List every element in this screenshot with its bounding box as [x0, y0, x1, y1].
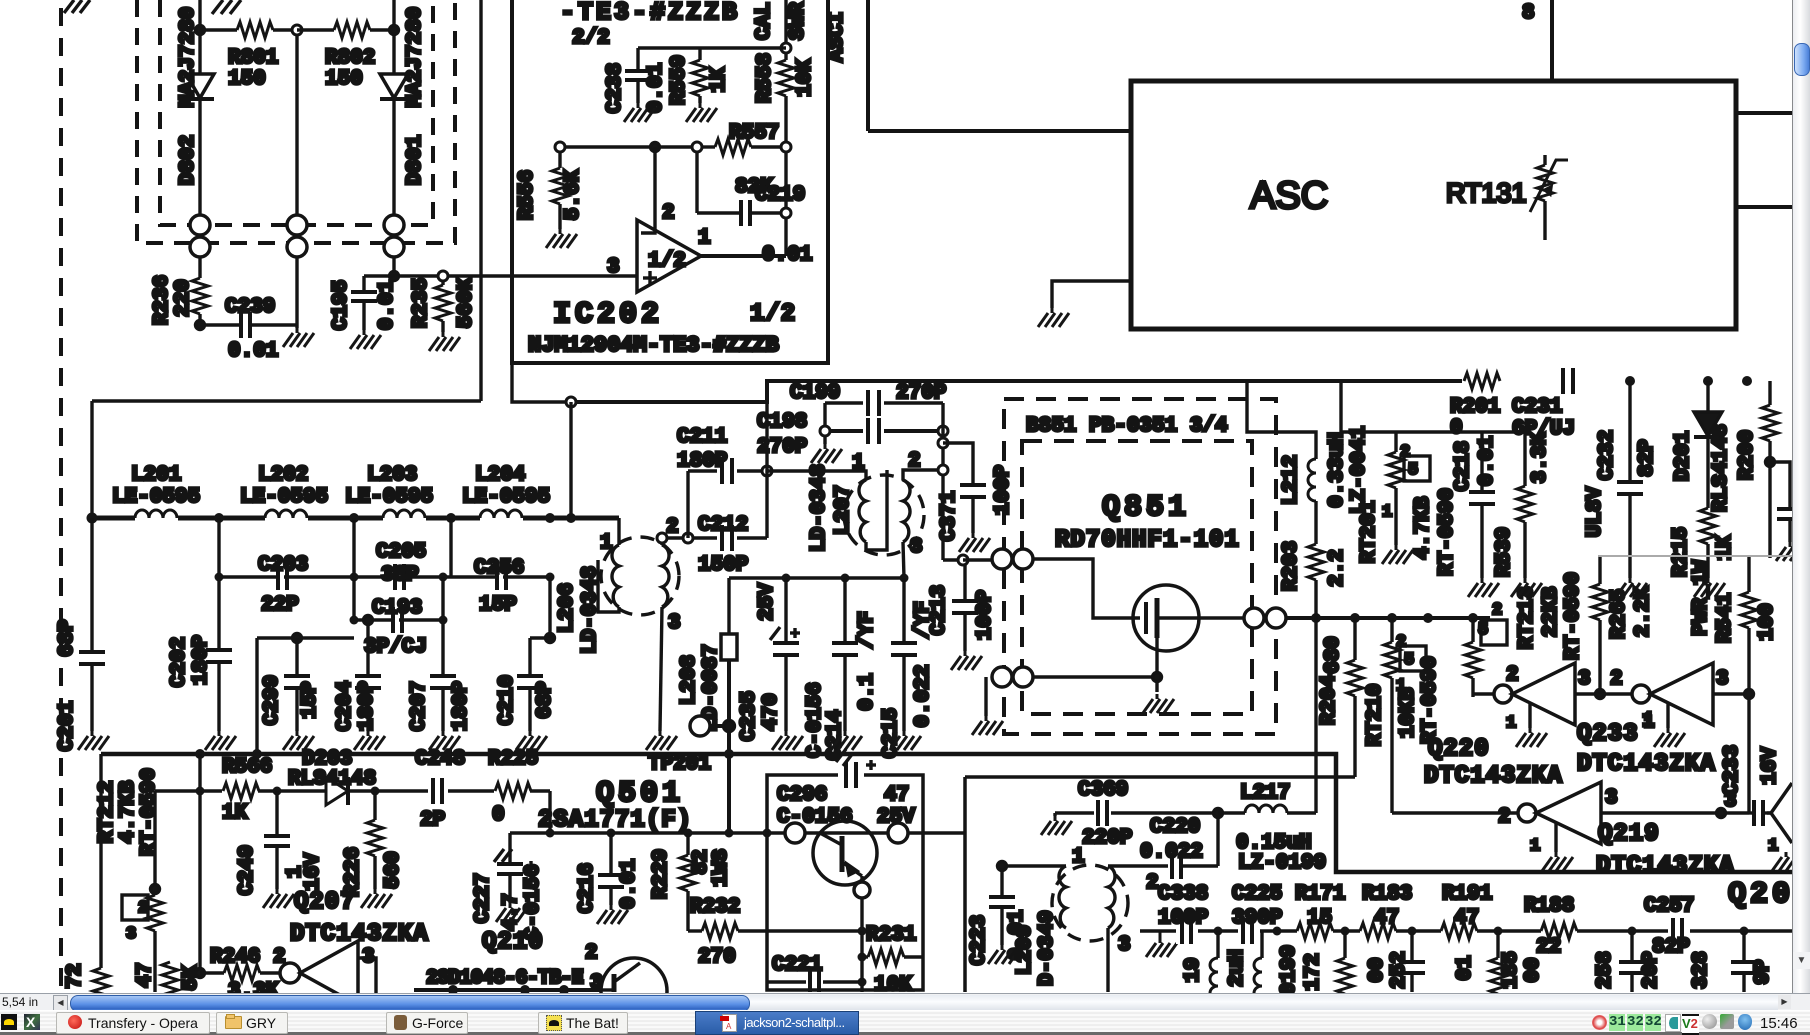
- wire x354 down: [352, 518, 355, 620]
- connector circles Q851 output: [1244, 608, 1264, 628]
- resistor RT212: [147, 791, 163, 992]
- L206 pin3 wire: [660, 607, 662, 731]
- svg-text:LD-0348: LD-0348: [579, 566, 602, 654]
- L209 left winding: [1059, 866, 1066, 928]
- ground under C207: [429, 731, 460, 750]
- inverter Q207: [280, 941, 358, 1005]
- capacitor C205: [393, 564, 404, 590]
- connector circles D802: [190, 215, 210, 235]
- tray icon V2: [1682, 1014, 1699, 1035]
- resistor R246: [200, 965, 281, 981]
- svg-text:LD-0348: LD-0348: [808, 464, 831, 552]
- wire C371 feed: [943, 443, 973, 485]
- resistor R566: [222, 782, 259, 800]
- opamp minus sign: [643, 232, 655, 235]
- svg-text:1: 1: [1382, 503, 1392, 522]
- svg-text:C193: C193: [372, 597, 422, 620]
- ground under R226: [361, 889, 392, 908]
- svg-text:2: 2: [1396, 633, 1406, 652]
- svg-text:2.2K: 2.2K: [1632, 586, 1655, 637]
- svg-text:C195: C195: [330, 280, 353, 330]
- Q501 bus y833: [510, 831, 965, 835]
- capacitor C195: [351, 276, 377, 330]
- resistor R185: [1490, 931, 1506, 994]
- svg-text:560: 560: [382, 851, 405, 889]
- svg-text:NJM12904M-TE3-#ZZZB: NJM12904M-TE3-#ZZZB: [528, 333, 779, 358]
- ground under C213: [951, 651, 982, 670]
- resistor R231: [862, 949, 923, 965]
- node dot R246: [196, 969, 205, 978]
- svg-text:CAL: CAL: [753, 2, 776, 40]
- L207 left winding bottom stub: [866, 470, 887, 550]
- inductor L-sub: [1210, 931, 1218, 1000]
- resistor R201 on bus: [1462, 372, 1502, 390]
- capacitor C220: [1172, 853, 1218, 879]
- svg-text:3: 3: [1724, 790, 1737, 813]
- wire R203 to drain line: [1314, 580, 1317, 618]
- wire L217 riser to drain line: [1314, 618, 1317, 813]
- resistor RT210: [1384, 618, 1400, 813]
- svg-text:3.3K: 3.3K: [1529, 432, 1552, 483]
- transistor Q210: [601, 958, 667, 1024]
- opera icon: [68, 1015, 82, 1029]
- taskbar: [0, 1010, 1810, 1035]
- svg-text:D201: D201: [1672, 431, 1695, 481]
- row C193: [354, 618, 443, 621]
- resistor RT201: [1388, 432, 1404, 545]
- svg-text:Q233: Q233: [1577, 721, 1639, 748]
- RT201 pin box: [1404, 456, 1430, 481]
- capacitor C219: [697, 152, 791, 226]
- task button G-Force: [386, 1012, 468, 1034]
- node dots on L-chain: [87, 513, 577, 524]
- svg-text:10K: 10K: [874, 974, 912, 993]
- wire D801 to C195/R235: [392, 257, 395, 276]
- Q233 pin1 stub + ground: [1666, 704, 1669, 728]
- L209 pin2 wire: [1108, 864, 1168, 867]
- status text 5,54 in: [2, 995, 52, 1009]
- main bus y754: [101, 754, 1792, 872]
- svg-text:C219: C219: [755, 184, 805, 207]
- ground under C215: [890, 731, 921, 750]
- svg-text:47: 47: [1454, 907, 1479, 930]
- svg-text:72: 72: [64, 963, 87, 988]
- svg-text:2: 2: [1146, 872, 1159, 895]
- svg-text:0: 0: [1450, 417, 1463, 440]
- svg-text:3: 3: [1605, 787, 1618, 810]
- svg-text:C210: C210: [496, 675, 519, 725]
- capacitor C203: [276, 564, 287, 590]
- node dots row791: [196, 787, 380, 796]
- Q220 output wire: [1575, 692, 1632, 695]
- svg-text:68P: 68P: [56, 619, 79, 657]
- L209 right winding: [1108, 866, 1115, 928]
- tray clock: [1760, 1015, 1798, 1032]
- wire CAL column: [784, 0, 787, 60]
- folder icon: [225, 1016, 242, 1029]
- svg-text:22KB: 22KB: [1540, 586, 1563, 637]
- wire L-chain to L206 pin1: [617, 518, 620, 545]
- status / horizontal scrollbar strip: [0, 993, 1810, 1011]
- L209 pin3 wire: [1106, 928, 1109, 992]
- svg-text:RT212: RT212: [96, 780, 119, 843]
- svg-text:1K: 1K: [222, 802, 248, 825]
- resistor R226: [367, 791, 383, 889]
- L207 left winding: [859, 480, 866, 542]
- node dots bus990: [448, 985, 569, 995]
- inner dashed box (D801/D802 section): [160, 0, 433, 225]
- capacitor C211: [688, 458, 762, 484]
- inverter Q219: [1518, 782, 1601, 844]
- wire ASC top pin: [1550, 0, 1554, 81]
- junction circle at 786,48: [781, 43, 791, 53]
- ground under C195: [350, 330, 381, 349]
- svg-text:C371: C371: [938, 491, 961, 541]
- svg-text:ASCI: ASCI: [826, 12, 849, 62]
- svg-text:R246 2: R246 2: [210, 946, 286, 969]
- resistor R232: [688, 923, 862, 939]
- svg-text:TP201: TP201: [648, 753, 711, 776]
- connector circle Q501 right: [888, 823, 908, 843]
- resistor R539: [1517, 432, 1533, 578]
- svg-text:DTC143ZKA: DTC143ZKA: [1577, 751, 1716, 778]
- wire TP201 riser to Q501 bus: [727, 754, 731, 833]
- svg-text:1: 1: [1768, 837, 1778, 856]
- svg-text:10KB: 10KB: [1397, 687, 1420, 738]
- ground under R539: [1511, 578, 1542, 597]
- svg-text:Q851: Q851: [1102, 491, 1190, 525]
- svg-text:19: 19: [1182, 957, 1205, 982]
- resistor R191: [1441, 922, 1477, 940]
- svg-text:RLS4148: RLS4148: [1710, 424, 1733, 512]
- pdf icon: [722, 1014, 737, 1032]
- inductor L204: [480, 510, 522, 518]
- capacitor C371: [960, 485, 986, 533]
- svg-text:2: 2: [662, 202, 675, 225]
- opamp output wire: [701, 254, 786, 258]
- svg-text:4.7KB: 4.7KB: [117, 780, 140, 843]
- svg-text:1K: 1K: [708, 67, 731, 93]
- junction circle at 943,443: [938, 438, 948, 448]
- svg-text:2: 2: [666, 516, 679, 539]
- capacitor C369: [1055, 800, 1214, 826]
- svg-text:C369: C369: [1078, 779, 1128, 802]
- L207 right winding: [903, 480, 910, 542]
- svg-text:C227: C227: [472, 873, 495, 923]
- wire to B851 upper pins: [963, 558, 992, 561]
- svg-text:RT-0590: RT-0590: [1436, 488, 1459, 576]
- junction circle 963,560: [958, 555, 968, 565]
- capacitor C258: [1619, 931, 1645, 992]
- Q207 output stub: [358, 958, 376, 993]
- hatch mark top of rail: [64, 0, 90, 13]
- svg-text:C201: C201: [56, 701, 79, 751]
- capacitor C223: [989, 866, 1015, 945]
- junction circle bus/L206 feed: [566, 397, 576, 407]
- svg-text:B851 PB-0351 3/4: B851 PB-0351 3/4: [1026, 415, 1228, 438]
- inductor L217: [1218, 805, 1316, 813]
- Q220 pin1 stub + ground: [1528, 704, 1531, 728]
- capacitor C256: [495, 564, 506, 590]
- B851 outer dashed box: [1004, 399, 1276, 734]
- node dot D802/R801: [196, 26, 205, 35]
- svg-text:0.022: 0.022: [912, 664, 935, 727]
- R566 row: [155, 789, 550, 792]
- vertical line left of IC202: [479, 0, 482, 401]
- inductor L203: [383, 510, 425, 518]
- svg-text:8: 8: [1522, 2, 1535, 25]
- capacitor C239: [200, 312, 297, 338]
- C198/C199 riser from bus: [823, 403, 826, 431]
- gforce label: [412, 1015, 463, 1031]
- svg-text:3: 3: [668, 612, 681, 635]
- MOSFET source wire + ground: [1155, 638, 1158, 692]
- ground under C201: [78, 731, 109, 750]
- wire x862 down: [860, 931, 863, 992]
- svg-text:RT131: RT131: [1446, 178, 1527, 208]
- L207 pin3 wire: [903, 542, 904, 578]
- svg-text:-TE3-#ZZZB: -TE3-#ZZZB: [560, 0, 740, 27]
- task button Opera: [56, 1012, 210, 1034]
- svg-text:47: 47: [884, 784, 909, 807]
- junction circle mid: [292, 25, 302, 35]
- svg-text:1: 1: [698, 227, 711, 250]
- svg-text:185: 185: [1500, 951, 1523, 989]
- capacitor C193: [391, 607, 402, 633]
- node dot at 394,276: [390, 272, 399, 281]
- capacitor C231: [1558, 368, 1580, 394]
- connector circles D801: [384, 215, 404, 235]
- test point TP201: [690, 716, 729, 736]
- ground bottom chain left stub: [1159, 931, 1162, 938]
- capacitor C213: [952, 565, 978, 651]
- svg-text:C199: C199: [790, 382, 840, 405]
- ground under C216: [597, 905, 628, 924]
- svg-text:RD70HHF1-101: RD70HHF1-101: [1055, 527, 1240, 554]
- svg-text:Q210: Q210: [482, 929, 544, 956]
- svg-text:100P: 100P: [974, 590, 997, 640]
- quicklaunch icon X: [24, 1014, 40, 1030]
- ASC ground wire: [1052, 281, 1131, 308]
- junction circle L207 pin2/x943: [938, 465, 948, 475]
- capacitor C225: [1238, 918, 1260, 944]
- svg-text:R183: R183: [1362, 883, 1412, 906]
- svg-text:ASC: ASC: [1250, 175, 1328, 217]
- svg-text:0.1: 0.1: [856, 673, 879, 711]
- task button jackson (active): [695, 1011, 859, 1035]
- svg-text:390P: 390P: [1232, 907, 1282, 930]
- svg-text:R539: R539: [1493, 527, 1516, 577]
- svg-text:470: 470: [760, 693, 783, 731]
- svg-text:C232: C232: [1596, 430, 1619, 480]
- svg-text:D801: D801: [404, 135, 427, 185]
- wire mid column lower: [295, 257, 298, 328]
- svg-text:22P: 22P: [261, 594, 299, 617]
- svg-text:01: 01: [1454, 955, 1477, 980]
- ground under C202: [205, 731, 236, 750]
- svg-text:C225: C225: [1232, 883, 1282, 906]
- RT213 pin box: [1481, 620, 1507, 645]
- svg-text:C216: C216: [576, 863, 599, 913]
- svg-text:0199: 0199: [1278, 945, 1301, 993]
- node dot C299: [293, 634, 302, 643]
- capacitor C207: [430, 676, 456, 731]
- svg-text:R191: R191: [1442, 883, 1492, 906]
- resistor R172: [1337, 931, 1353, 994]
- svg-text:4.7KB: 4.7KB: [1412, 496, 1435, 559]
- resistor RT213: [1465, 618, 1481, 697]
- svg-text:Q219: Q219: [1598, 821, 1660, 848]
- node dots row620: [350, 616, 448, 625]
- svg-text:2: 2: [1400, 443, 1410, 462]
- wire inverting input riser: [641, 147, 655, 233]
- svg-text:R558: R558: [754, 53, 777, 103]
- resistor R215: [1700, 508, 1716, 578]
- jackson label: [744, 1015, 845, 1030]
- svg-text:33P: 33P: [381, 564, 419, 587]
- svg-text:C215: C215: [880, 708, 903, 758]
- svg-text:1: 1: [1506, 714, 1516, 733]
- svg-text:3.3K: 3.3K: [228, 980, 279, 993]
- capacitor C201: [79, 518, 105, 731]
- L207 pin1 wire from C211 row: [767, 471, 866, 480]
- capacitor C248: [428, 778, 448, 804]
- resistor R183: [1360, 922, 1396, 940]
- transformer L209 dashed circle: [1052, 865, 1128, 941]
- node dot source: [1153, 673, 1162, 682]
- node dots on top bus right: [1625, 376, 1752, 386]
- capacitor C233: [1749, 781, 1771, 826]
- svg-text:1: 1: [1642, 710, 1655, 733]
- svg-text:2P: 2P: [420, 809, 445, 832]
- node dot TP201: [724, 721, 735, 732]
- opamp plus sign: [643, 271, 657, 285]
- capacitor C202: [206, 518, 232, 731]
- svg-text:00: 00: [1366, 957, 1389, 982]
- tray icon shield: [1738, 1014, 1752, 1030]
- thermistor RT131: [1530, 155, 1568, 240]
- L206 left winding bottom stub: [598, 560, 619, 612]
- svg-text:C239: C239: [225, 296, 275, 319]
- inductor L202: [265, 510, 307, 518]
- svg-text:270P: 270P: [896, 382, 946, 405]
- buffer triangle right edge: [1767, 783, 1792, 843]
- svg-text:PWR_1W: PWR_1W: [1690, 560, 1713, 636]
- ground under R559: [686, 103, 717, 122]
- svg-text:16V: 16V: [1759, 747, 1782, 785]
- resistor R-72 bottom left: [93, 968, 109, 1004]
- svg-text:C248: C248: [415, 748, 465, 771]
- ground under C365: [1776, 542, 1807, 561]
- resistor R200: [1762, 381, 1778, 558]
- svg-text:C211: C211: [677, 426, 727, 449]
- connector circle Q501 emitter: [854, 882, 870, 898]
- node dot RT212: [151, 885, 160, 894]
- ground under C232: [1616, 578, 1647, 597]
- task button The Bat: [538, 1012, 628, 1034]
- svg-text:270P: 270P: [757, 436, 807, 459]
- coil small x1262: [0, 0, 2, 2]
- vertical scrollbar thumb: [1794, 43, 1810, 76]
- ground under C371: [959, 533, 990, 552]
- node dots on drain line: [1311, 613, 1478, 623]
- svg-text:L202: L202: [258, 464, 308, 487]
- resistor R557: [692, 139, 791, 155]
- inductor L212: [1308, 459, 1316, 501]
- svg-text:2: 2: [1506, 664, 1519, 687]
- gray page edge line: [1598, 555, 1792, 557]
- wire left filter box left edge: [90, 401, 93, 518]
- junction circle R235: [438, 271, 448, 281]
- inductor L201: [135, 510, 177, 518]
- svg-text:R225: R225: [488, 748, 538, 771]
- svg-text:RT-0590: RT-0590: [138, 768, 161, 856]
- svg-text:RLS4148: RLS4148: [288, 768, 376, 791]
- wire R556 to R557 node: [560, 145, 692, 148]
- svg-text:R556: R556: [516, 170, 539, 220]
- wire emitter down: [860, 898, 863, 931]
- svg-text:5.6K: 5.6K: [562, 169, 585, 220]
- svg-text:150: 150: [325, 68, 363, 91]
- svg-text:3: 3: [1578, 668, 1591, 691]
- task button GRY: [216, 1012, 288, 1034]
- node dots bus754: [195, 749, 734, 759]
- resistor R229: [680, 833, 696, 931]
- svg-text:R200: R200: [1736, 430, 1759, 480]
- node dot Q219 out: [1717, 809, 1726, 818]
- node dots row577: [215, 573, 555, 582]
- main top bus with jog: [571, 381, 1464, 402]
- svg-text:R235: R235: [410, 278, 433, 328]
- bat icon: [546, 1015, 562, 1031]
- svg-text:Q207: Q207: [294, 889, 356, 916]
- connector circles B851 gate pins: [992, 549, 1012, 569]
- svg-text:L217: L217: [1240, 782, 1290, 805]
- wire below IC202 box to bus: [512, 363, 571, 402]
- svg-text:C207: C207: [408, 681, 431, 731]
- capacitor C235 electrolytic: [770, 578, 800, 731]
- svg-text:47: 47: [134, 962, 157, 987]
- resistor R541: [1741, 557, 1757, 781]
- bottom RF chain row: [1140, 929, 1792, 932]
- svg-text:C256: C256: [474, 557, 524, 580]
- MOSFET gate bar: [1144, 602, 1148, 634]
- connector circles B851 source pins: [992, 667, 1012, 687]
- Q219 pin1 stub + ground: [1554, 823, 1557, 852]
- Q501 emitter out: [860, 876, 863, 882]
- resistor R225: [494, 782, 531, 800]
- The Bat label: [566, 1015, 619, 1031]
- Q219 output wire: [1601, 811, 1749, 814]
- capacitor C365: [1770, 462, 1793, 542]
- svg-text:0.01: 0.01: [1476, 436, 1499, 486]
- capacitor C204: [355, 620, 381, 731]
- diode D801 wire: [392, 0, 395, 215]
- ground under Q851 source: [1143, 694, 1174, 713]
- svg-text:68P: 68P: [534, 681, 557, 719]
- connector circles mid: [287, 215, 307, 235]
- svg-text:328: 328: [1690, 951, 1713, 989]
- svg-text:C205: C205: [376, 541, 426, 564]
- junction circle C211 right: [762, 466, 772, 476]
- ground under C249: [263, 889, 294, 908]
- capacitor C249: [264, 791, 290, 889]
- svg-text:3: 3: [126, 925, 136, 944]
- node dot R200/C365: [1766, 458, 1775, 467]
- wire bus drop to L212: [1247, 381, 1316, 459]
- resistor R203: [1308, 544, 1324, 580]
- svg-text:2: 2: [1498, 806, 1511, 829]
